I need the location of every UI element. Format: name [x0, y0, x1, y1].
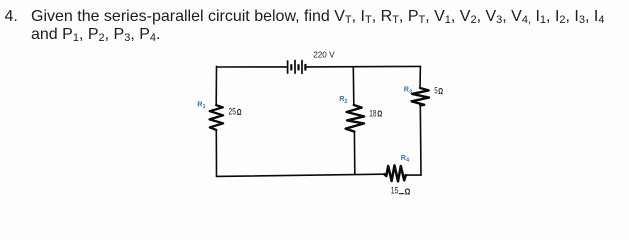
- svg-text:15: 15: [391, 185, 399, 195]
- wire top left segment: [217, 66, 287, 68]
- resistor R1 (25 ohm, left branch): [210, 105, 224, 130]
- wire left vertical lower: [215, 130, 217, 177]
- resistor R3 (5 ohm, right branch top): [412, 88, 429, 105]
- svg-text:Ω: Ω: [237, 108, 242, 117]
- svg-text:25: 25: [229, 107, 236, 117]
- wire middle vertical upper: [352, 67, 355, 105]
- svg-text:R2: R2: [339, 94, 347, 105]
- wire middle vertical lower: [353, 132, 355, 175]
- svg-text:18: 18: [369, 108, 376, 118]
- question text: [5, 9, 629, 45]
- wire bottom right segment: [406, 174, 421, 176]
- svg-text:Ω: Ω: [405, 187, 411, 196]
- wire top right segment: [306, 65, 420, 68]
- wire bottom left segment: [217, 174, 385, 176]
- svg-text:R1: R1: [197, 99, 205, 110]
- wire left vertical upper: [215, 66, 217, 105]
- resistor R4 (15 ohm, bottom branch): [384, 165, 406, 181]
- svg-text:5: 5: [434, 85, 437, 95]
- svg-text:220 V: 220 V: [313, 50, 335, 60]
- battery B1 220V: [288, 60, 306, 74]
- svg-text:Ω: Ω: [438, 87, 443, 96]
- svg-text:R4: R4: [401, 153, 410, 164]
- svg-text:R3: R3: [404, 85, 412, 96]
- wire right vertical upper: [419, 66, 421, 88]
- wire right vertical lower: [419, 105, 422, 175]
- resistor R2 (18 ohm, middle branch): [346, 105, 365, 132]
- svg-text:Ω: Ω: [377, 110, 382, 119]
